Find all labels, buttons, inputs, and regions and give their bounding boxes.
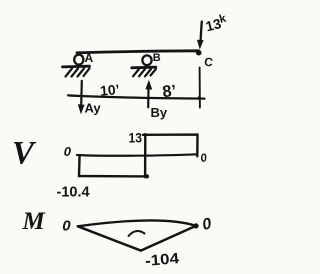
svg-text:8’: 8’ bbox=[162, 82, 178, 101]
svg-text:A: A bbox=[85, 51, 94, 65]
svg-text:-10.4: -10.4 bbox=[57, 185, 90, 201]
svg-text:By: By bbox=[151, 105, 168, 120]
svg-text:0: 0 bbox=[62, 218, 71, 235]
svg-text:10’: 10’ bbox=[99, 81, 120, 99]
svg-text:0: 0 bbox=[64, 144, 72, 159]
svg-text:M: M bbox=[22, 208, 46, 235]
svg-text:Ay: Ay bbox=[85, 101, 102, 116]
svg-text:B: B bbox=[153, 52, 161, 64]
svg-text:V: V bbox=[12, 136, 37, 172]
svg-text:-104: -104 bbox=[144, 250, 180, 270]
svg-text:13: 13 bbox=[129, 130, 143, 146]
